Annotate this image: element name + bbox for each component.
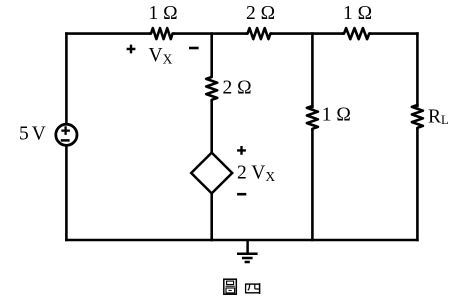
wire branch from R5 to bottom rail bbox=[311, 130, 314, 240]
svg-text:1 Ω: 1 Ω bbox=[148, 3, 177, 24]
svg-text:RL: RL bbox=[428, 106, 449, 127]
svg-text:1 Ω: 1 Ω bbox=[343, 3, 372, 24]
svg-text:2 VX: 2 VX bbox=[237, 162, 275, 184]
svg-text:5V: 5V bbox=[19, 123, 46, 144]
plus sign of Vx bbox=[127, 45, 136, 54]
dependent source diamond 2Vx bbox=[191, 153, 232, 194]
minus sign of Vx bbox=[189, 47, 199, 50]
resistor R1 1 ohm (top left, horizontal) bbox=[149, 28, 175, 39]
wire right rail upper bbox=[416, 34, 419, 106]
caption glyph si (four) bbox=[245, 283, 260, 294]
wire right rail lower bbox=[416, 129, 419, 240]
minus sign of dependent source bbox=[237, 193, 246, 196]
svg-text:VX: VX bbox=[149, 45, 173, 66]
caption glyph tu (figure) bbox=[224, 279, 237, 294]
voltage source V1 5V bbox=[56, 124, 77, 145]
svg-text:2 Ω: 2 Ω bbox=[223, 77, 252, 98]
wire top rail segment from R2 to node C / R3 bbox=[271, 32, 343, 35]
resistor R3 1 ohm (top right, horizontal) bbox=[342, 28, 371, 39]
wire top rail segment from top-left corner to R1 bbox=[66, 32, 150, 35]
plus sign inside source bbox=[61, 126, 70, 135]
svg-text:2 Ω: 2 Ω bbox=[246, 3, 275, 24]
ground bbox=[237, 240, 258, 262]
wire left rail upper (node A to source plus terminal) bbox=[65, 34, 68, 124]
resistor RL load (right, vertical) bbox=[412, 104, 423, 130]
wire left rail lower (source minus terminal to bottom rail) bbox=[65, 146, 68, 240]
wire top rail segment from R3 to top-right corner bbox=[370, 32, 417, 35]
resistor R4 2 ohm (middle, vertical) bbox=[206, 75, 217, 102]
plus sign of dependent source bbox=[237, 146, 246, 155]
wire top rail segment from R1 to node B / R2 bbox=[174, 32, 247, 35]
svg-text:1 Ω: 1 Ω bbox=[322, 104, 351, 125]
wire mid branch below diamond to bottom rail bbox=[210, 193, 213, 240]
wire mid branch between R4 and dependent source bbox=[210, 101, 213, 153]
wire bottom rail (ground net) bbox=[66, 239, 417, 242]
wire branch node C down to R5 bbox=[311, 34, 314, 107]
minus sign inside source bbox=[61, 139, 70, 142]
wire mid branch upper (node B down to R4) bbox=[210, 34, 213, 76]
resistor R5 1 ohm (middle right, vertical) bbox=[307, 105, 318, 131]
resistor R2 2 ohm (top middle, horizontal) bbox=[246, 28, 273, 39]
